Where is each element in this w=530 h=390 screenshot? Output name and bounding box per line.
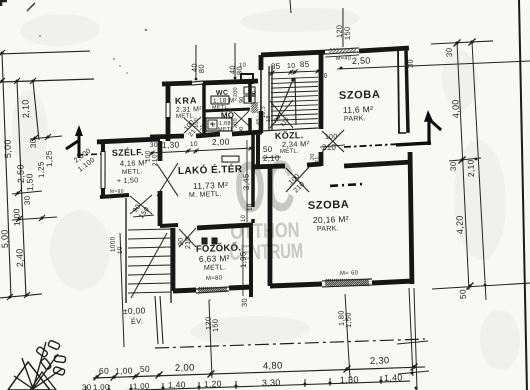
svg-text:18: 18 xyxy=(266,115,272,122)
svg-text:1,50: 1,50 xyxy=(344,312,353,328)
svg-text:30: 30 xyxy=(240,298,249,307)
radiator lako top xyxy=(222,155,239,162)
dim line 2,50 top xyxy=(337,61,530,69)
svg-text:3,45: 3,45 xyxy=(242,173,252,190)
svg-text:1,40: 1,40 xyxy=(384,372,403,383)
left dim tick lines xyxy=(30,136,62,139)
svg-text:90: 90 xyxy=(239,126,245,133)
wc label box and fixture xyxy=(211,95,229,104)
entrance arrow left xyxy=(78,133,79,158)
svg-text:50: 50 xyxy=(458,289,468,299)
lako-szoba20 wall xyxy=(251,133,256,207)
svg-text:1,00: 1,00 xyxy=(133,382,150,390)
svg-text:ÉV.: ÉV. xyxy=(131,317,144,326)
radiator szoba20 xyxy=(330,184,362,186)
lako left wall xyxy=(159,141,160,161)
svg-text:11,73 M²: 11,73 M² xyxy=(193,180,229,191)
upper-left block left wall xyxy=(167,82,168,103)
door fozoke xyxy=(179,229,196,248)
svg-text:SZOBA: SZOBA xyxy=(339,89,381,102)
svg-text:4,20: 4,20 xyxy=(454,215,465,234)
svg-text:METL.: METL. xyxy=(122,168,143,176)
scan corner speck top-left xyxy=(0,0,7,2)
svg-text:+ 1,50: + 1,50 xyxy=(117,177,139,185)
svg-text:10: 10 xyxy=(287,63,296,70)
svg-text:85: 85 xyxy=(271,62,281,71)
svg-text:80: 80 xyxy=(197,64,206,73)
svg-text:30: 30 xyxy=(445,47,454,57)
svg-text:M=40: M=40 xyxy=(336,56,351,62)
svg-text:1,00: 1,00 xyxy=(11,208,22,226)
wall KRA-WC xyxy=(202,83,205,133)
svg-text:6,63 M²: 6,63 M² xyxy=(199,253,230,264)
door szelf xyxy=(130,195,152,214)
szelf left wall xyxy=(101,142,106,152)
svg-text:2,50: 2,50 xyxy=(352,55,371,66)
svg-text:150: 150 xyxy=(343,26,352,40)
radiator fozoke xyxy=(202,238,207,244)
bottom vertical dim extensions xyxy=(120,233,124,347)
bathtub xyxy=(206,117,233,132)
door kra xyxy=(184,117,201,133)
svg-text:1,20: 1,20 xyxy=(204,378,222,389)
wall WC-bath xyxy=(204,109,250,111)
watermark OC Otthon Centrum xyxy=(229,146,303,265)
svg-text:30: 30 xyxy=(449,161,458,171)
upper-left block top wall xyxy=(162,81,192,87)
svg-text:60: 60 xyxy=(99,366,109,376)
bath right wall xyxy=(249,80,250,102)
szoba20 bottom window xyxy=(322,279,372,281)
svg-text:2,00: 2,00 xyxy=(212,136,230,147)
svg-text:4,00: 4,00 xyxy=(450,99,461,118)
szelf left window xyxy=(100,151,102,189)
svg-text:WC: WC xyxy=(216,90,228,97)
svg-text:200: 200 xyxy=(233,87,239,97)
entrance arrow right xyxy=(428,118,430,145)
flue closet top xyxy=(241,74,254,84)
svg-text:KRA: KRA xyxy=(175,95,198,106)
svg-text:210: 210 xyxy=(185,236,192,249)
svg-text:10: 10 xyxy=(239,63,247,69)
szelf bottom wall xyxy=(100,195,129,197)
svg-text:50: 50 xyxy=(140,364,150,374)
stairwell-szoba wall xyxy=(319,52,324,129)
stair door cross xyxy=(270,100,293,128)
svg-text:1,00: 1,00 xyxy=(93,382,110,390)
svg-text:PARK.: PARK. xyxy=(317,225,339,233)
svg-text:10: 10 xyxy=(190,141,198,148)
svg-text:100: 100 xyxy=(325,134,338,141)
szoba11 bottom wall xyxy=(344,162,412,166)
svg-text:PARK.: PARK. xyxy=(344,115,366,123)
left dim chain verticals xyxy=(2,53,11,297)
fozoke bottom wall xyxy=(173,290,196,291)
svg-text:150: 150 xyxy=(211,319,220,333)
stairwell treads xyxy=(271,77,318,79)
svg-text:20,16 M²: 20,16 M² xyxy=(313,214,349,225)
sink rects xyxy=(244,87,255,95)
svg-text:M. METL.: M. METL. xyxy=(189,191,222,199)
svg-text:10: 10 xyxy=(320,73,328,80)
scan border right edge xyxy=(515,0,530,390)
stair direction diagonal xyxy=(274,82,293,123)
left wall window xyxy=(166,102,167,118)
svg-text:METL.: METL. xyxy=(280,148,299,155)
svg-text:METL.: METL. xyxy=(204,264,226,272)
szoba20 bottom wall xyxy=(270,284,322,286)
svg-text:2,10: 2,10 xyxy=(465,159,476,177)
bottom chain line 1 xyxy=(93,367,425,378)
fozoke right wall xyxy=(249,223,254,297)
lako-fozoke wall xyxy=(160,223,178,228)
closet hatch xyxy=(250,101,252,103)
building right wall xyxy=(396,50,400,133)
svg-text:1,50: 1,50 xyxy=(24,173,35,191)
svg-text:M=80: M=80 xyxy=(206,275,223,282)
svg-text:50: 50 xyxy=(252,90,258,97)
svg-text:30: 30 xyxy=(82,383,92,390)
door kozl-szoba11 xyxy=(322,130,344,152)
svg-text:2,10: 2,10 xyxy=(20,99,31,118)
svg-text:10: 10 xyxy=(241,214,247,222)
svg-text:45: 45 xyxy=(256,118,262,125)
svg-text:M= 60: M= 60 xyxy=(340,270,359,277)
right dim verticals xyxy=(457,43,469,290)
svg-text:30: 30 xyxy=(29,138,38,148)
svg-text:1,40: 1,40 xyxy=(168,379,186,390)
exterior steps diagonal xyxy=(129,233,169,298)
stairwell left wall xyxy=(258,55,264,70)
dim line 3,45 vertical xyxy=(244,140,249,222)
top dim line 40/80 right xyxy=(234,43,236,79)
svg-text:SZOBA: SZOBA xyxy=(308,199,350,212)
scan specks xyxy=(113,58,115,60)
dim line 1,30 10 2,00 xyxy=(150,148,253,153)
fozoke bottom window xyxy=(196,287,229,289)
right dim mid tick xyxy=(449,158,481,161)
szelf top wall xyxy=(97,139,160,142)
stairwell railing line xyxy=(262,128,318,131)
kozl left wall xyxy=(257,133,259,166)
svg-text:4,16 M²: 4,16 M² xyxy=(120,158,148,168)
svg-text:21: 21 xyxy=(200,124,206,131)
svg-text:4,80: 4,80 xyxy=(263,360,283,372)
svg-text:SZÉLF.: SZÉLF. xyxy=(112,147,144,158)
svg-text:85: 85 xyxy=(300,60,310,69)
svg-text:5,00: 5,00 xyxy=(0,229,10,248)
bush symbol xyxy=(14,375,33,389)
top dim line 40/80 left xyxy=(195,45,197,80)
door lako from szelf xyxy=(157,163,178,196)
svg-text:METL.: METL. xyxy=(176,113,195,120)
svg-text:METL.: METL. xyxy=(218,126,236,133)
svg-text:90: 90 xyxy=(239,96,245,103)
dim line 85 10 85 xyxy=(268,71,320,73)
svg-text:2,00: 2,00 xyxy=(175,362,195,374)
svg-text:210: 210 xyxy=(152,154,159,166)
bottom chain line 2 xyxy=(80,381,410,390)
svg-text:MÖ: MÖ xyxy=(221,111,235,120)
svg-text:2,10: 2,10 xyxy=(263,154,280,164)
svg-text:21: 21 xyxy=(315,156,321,163)
left dim chain horizontals xyxy=(0,51,90,54)
upper-left block bottom wall xyxy=(150,136,184,137)
svg-text:50: 50 xyxy=(263,145,273,154)
szoba20 left wall xyxy=(266,167,274,286)
entrance dash-dot right xyxy=(344,144,400,147)
svg-text:10: 10 xyxy=(247,203,254,211)
svg-text:1,25: 1,25 xyxy=(44,150,54,167)
upper-right block top wall xyxy=(261,52,325,55)
svg-text:210: 210 xyxy=(322,143,337,152)
right dim top tick line xyxy=(431,41,493,44)
svg-text:1,30: 1,30 xyxy=(162,139,180,150)
svg-text:±0,00: ±0,00 xyxy=(123,305,146,316)
svg-text:1,00: 1,00 xyxy=(115,365,133,376)
svg-text:11,6 M²: 11,6 M² xyxy=(343,104,374,115)
svg-text:2,30: 2,30 xyxy=(370,355,390,367)
KRA top window xyxy=(192,81,203,82)
top dim line 120/150 window xyxy=(342,8,344,47)
entrance dash-dot left xyxy=(77,153,101,156)
svg-text:30: 30 xyxy=(150,142,158,149)
svg-text:30: 30 xyxy=(23,195,32,205)
ground dash-dot line xyxy=(155,339,425,348)
dim 1,95 fozoke xyxy=(241,226,245,296)
door bath small xyxy=(234,112,249,127)
svg-text:5,00: 5,00 xyxy=(2,139,13,158)
svg-text:3,30: 3,30 xyxy=(262,377,281,388)
exterior steps rails xyxy=(123,198,130,303)
door kozl-szoba20 xyxy=(286,167,309,192)
kozl bottom wall / szoba20 top xyxy=(253,166,285,167)
svg-text:M=90: M=90 xyxy=(110,189,124,195)
right dim bottom tick line xyxy=(432,283,530,289)
exterior steps treads xyxy=(128,229,171,231)
svg-text:2,40: 2,40 xyxy=(14,248,25,267)
svg-text:10: 10 xyxy=(117,246,124,254)
fozoke left wall xyxy=(171,228,175,291)
svg-text:1,80: 1,80 xyxy=(340,374,359,385)
top window xyxy=(325,48,359,50)
building edge extension lines bottom right xyxy=(409,288,413,376)
